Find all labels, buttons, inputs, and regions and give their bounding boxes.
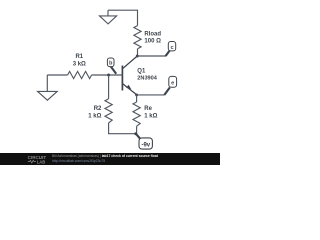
label Re value <box>144 106 157 120</box>
ground (left) <box>38 75 58 100</box>
svg-text:Bill Ashmanskas (ashmanskas) |: Bill Ashmanskas (ashmanskas) | lab17 che… <box>52 154 159 158</box>
wire: Rload bottom to collector node <box>137 49 139 56</box>
node e box <box>164 76 176 95</box>
CircuitLab logo text <box>28 155 47 164</box>
resistor Re zigzag <box>133 102 140 126</box>
wire: Re bottom to bottom rail junction <box>136 126 138 134</box>
svg-text:Re: Re <box>144 106 152 112</box>
CircuitLab logo resistor squiggle <box>28 160 36 163</box>
junction: base node <box>107 74 110 77</box>
junction: emitter node <box>135 93 138 96</box>
svg-text:Q1: Q1 <box>137 69 146 75</box>
node c box <box>166 42 176 57</box>
resistor Rload zigzag <box>134 26 141 49</box>
svg-text:R1: R1 <box>75 54 83 60</box>
wire: collector node to node c callout <box>137 55 166 57</box>
wire: R2 bottom to bottom rail <box>109 123 136 134</box>
wire: top rail from ground to Rload <box>108 10 138 25</box>
svg-text:2N3904: 2N3904 <box>137 76 157 82</box>
svg-text:b: b <box>109 61 113 67</box>
node b box <box>107 58 116 74</box>
svg-text:1 kΩ: 1 kΩ <box>88 114 101 120</box>
svg-text:http://circuitlab.com/czos2f3p: http://circuitlab.com/czos2f3p23u75 <box>52 159 105 163</box>
label R2 value <box>88 106 102 120</box>
svg-text:c: c <box>170 45 173 51</box>
resistor R1 zigzag <box>68 71 92 78</box>
svg-text:R2: R2 <box>94 106 102 112</box>
text layer <box>0 0 220 165</box>
wire: emitter node to node e callout <box>137 94 165 96</box>
transistor Q1 symbol <box>122 56 137 95</box>
label Q1 2N3904 <box>137 69 157 82</box>
svg-text:100 Ω: 100 Ω <box>144 39 161 45</box>
ground (top) <box>100 10 117 24</box>
svg-text:-9v: -9v <box>141 142 150 148</box>
label R1 value <box>73 54 86 68</box>
svg-text:1 kΩ: 1 kΩ <box>144 114 157 120</box>
label Rload value <box>144 32 161 45</box>
wire: base node down to R2 <box>108 75 110 99</box>
svg-text:3 kΩ: 3 kΩ <box>73 62 86 68</box>
svg-text:Rload: Rload <box>144 32 161 38</box>
wire: emitter node down to Re <box>136 95 138 102</box>
svg-text:LAB: LAB <box>37 159 46 164</box>
footer bar <box>0 153 220 165</box>
junction: negative supply node <box>134 132 137 135</box>
shapes layer <box>0 0 220 165</box>
node -9v box <box>136 134 153 149</box>
junction: collector node <box>136 55 139 58</box>
wire: left rail from ground corner to R1 <box>47 74 67 76</box>
wire: base wire from R1 through junction to base bar <box>92 74 123 76</box>
resistor R2 zigzag <box>105 99 112 123</box>
svg-text:e: e <box>171 81 174 87</box>
